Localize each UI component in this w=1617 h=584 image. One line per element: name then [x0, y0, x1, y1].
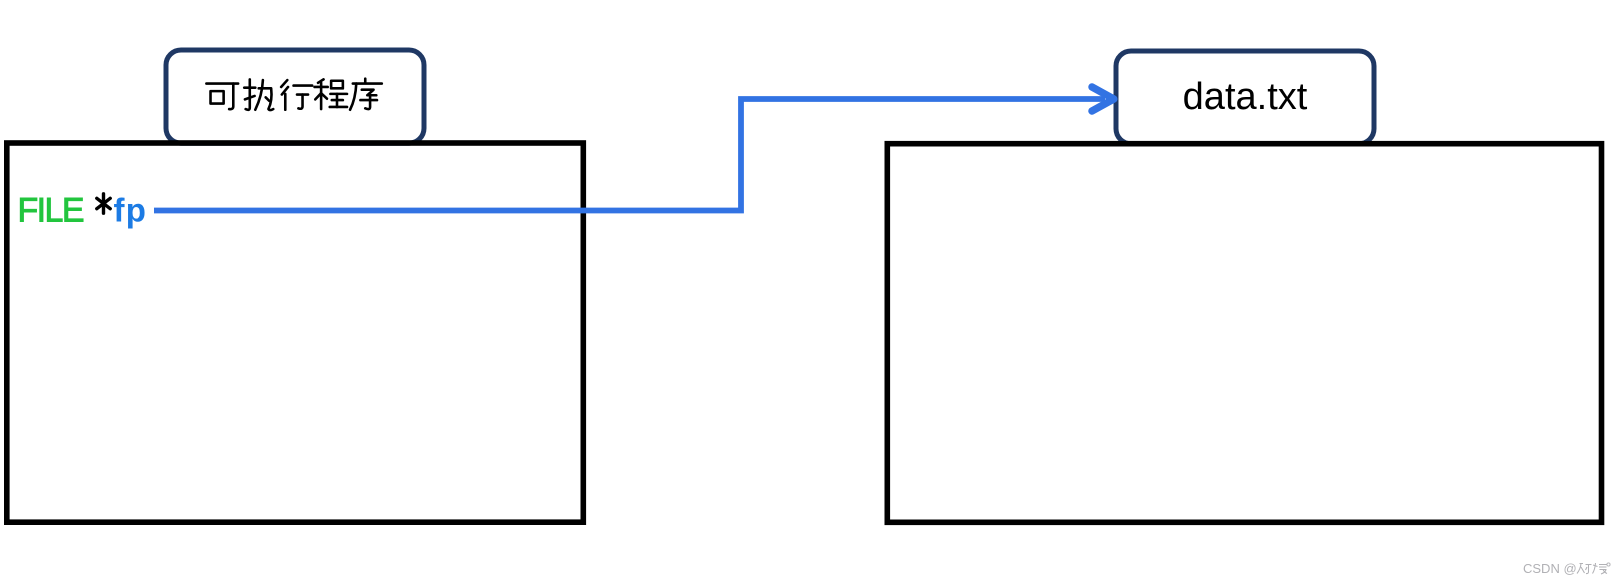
label text: data.txt	[1183, 76, 1308, 118]
watermark: CSDN @初猿°	[1523, 561, 1610, 576]
box: data.txt file (right big rectangle)	[887, 144, 1601, 523]
svg-text:CSDN @: CSDN @	[1523, 561, 1577, 576]
label box: 可执行程序 (executable program)	[166, 50, 424, 143]
执	[244, 79, 273, 110]
wire: blue elbow connector from fp to data.txt	[154, 99, 1105, 211]
label box: data.txt	[1116, 51, 1374, 144]
text: FILE *fp	[18, 192, 148, 230]
程	[315, 79, 347, 109]
可	[206, 84, 238, 110]
svg-text:fp: fp	[114, 192, 148, 229]
svg-text:FILE: FILE	[18, 192, 84, 230]
box: executable program memory (left big rectangle)	[7, 143, 584, 522]
序	[350, 79, 382, 110]
arrowhead at data.txt	[1092, 87, 1114, 111]
svg-text:data.txt: data.txt	[1183, 76, 1308, 118]
猿	[1593, 563, 1608, 574]
label text: 可执行程序 (hand-drawn strokes)	[206, 79, 381, 110]
行	[281, 80, 312, 110]
初	[1577, 564, 1592, 574]
degree mark	[1607, 563, 1610, 566]
